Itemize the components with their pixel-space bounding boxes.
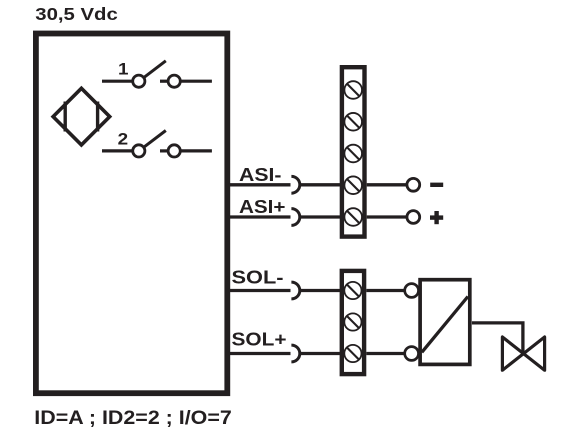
valve V1 (502, 337, 544, 370)
svg-text:30,5 Vdc: 30,5 Vdc (35, 4, 118, 24)
wire ASI+ to terminal (300, 215, 341, 218)
solenoid pin circle top (405, 284, 419, 298)
svg-text:SOL-: SOL- (232, 267, 284, 287)
wire SOL+ to terminal (300, 352, 341, 355)
connector ASI- (291, 176, 299, 193)
switch 1 (102, 61, 212, 87)
wire SOL- to solenoid (366, 289, 405, 292)
plus sign (430, 211, 443, 224)
wire ASI- from box (228, 183, 291, 186)
terminal block X2 (342, 271, 364, 374)
solenoid coil Y1 (420, 280, 470, 365)
plus terminal circle (407, 211, 420, 224)
terminal screw X2-3 (344, 345, 361, 362)
svg-text:1: 1 (118, 60, 129, 79)
terminal screw X1-3 (344, 145, 362, 163)
minus terminal circle (407, 178, 420, 191)
device box U1 (36, 34, 227, 394)
svg-text:2: 2 (118, 130, 129, 149)
svg-text:ASI+: ASI+ (239, 197, 286, 217)
terminal screw X1-4 (344, 176, 362, 194)
connector SOL- (291, 282, 299, 299)
connector SOL+ (291, 345, 299, 362)
wire SOL- from box (228, 289, 291, 292)
solenoid diagonal (422, 297, 468, 353)
connector ASI+ (291, 209, 299, 226)
terminal block X1 (342, 67, 365, 236)
wire SOL+ to solenoid (366, 352, 405, 355)
terminal screw X1-2 (344, 113, 362, 131)
terminal screw X1-1 (344, 81, 362, 99)
wire ASI- to terminal (300, 183, 341, 186)
wire SOL- to terminal (300, 289, 341, 292)
terminal screw X2-2 (344, 313, 361, 330)
wire ASI+ to plus terminal (367, 215, 407, 218)
svg-text:ASI-: ASI- (239, 165, 282, 185)
wire ASI- to minus terminal (367, 183, 407, 186)
wire ASI+ from box (228, 215, 291, 218)
AS-i slave symbol (53, 88, 110, 145)
wire SOL+ from box (228, 352, 291, 355)
svg-text:ID=A ; ID2=2 ; I/O=7: ID=A ; ID2=2 ; I/O=7 (34, 408, 232, 429)
solenoid pin circle bottom (405, 347, 419, 361)
switch 2 (102, 131, 212, 157)
svg-text:SOL+: SOL+ (232, 329, 287, 349)
terminal screw X2-1 (344, 282, 361, 299)
wire solenoid to valve (472, 323, 523, 354)
terminal screw X1-5 (344, 208, 362, 226)
minus sign (430, 183, 443, 187)
